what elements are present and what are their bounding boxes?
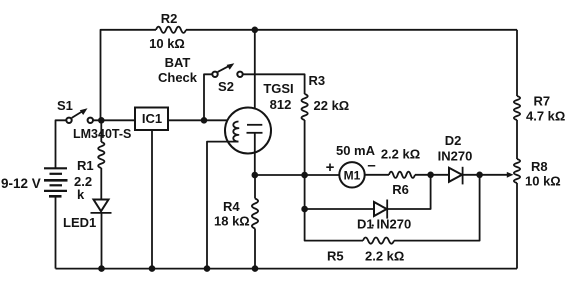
junction dot on top rail at sensor electrode xyxy=(252,27,259,34)
wire R4 top lead xyxy=(254,175,256,199)
svg-text:812: 812 xyxy=(270,97,292,112)
svg-text:9-12 V: 9-12 V xyxy=(1,176,41,191)
svg-text:R2: R2 xyxy=(161,11,178,26)
svg-text:D2: D2 xyxy=(445,133,462,148)
svg-text:IC1: IC1 xyxy=(142,111,162,126)
svg-text:IN270: IN270 xyxy=(438,149,473,164)
svg-text:k: k xyxy=(77,187,85,202)
meter M1 circle xyxy=(339,162,364,187)
svg-text:50 mA: 50 mA xyxy=(336,143,376,158)
diode D2 cathode bar xyxy=(462,167,464,185)
wire meter M1 to R6 xyxy=(365,174,389,176)
svg-text:R3: R3 xyxy=(309,73,326,88)
LED LED1 cathode bar xyxy=(91,212,112,214)
svg-text:22 kΩ: 22 kΩ xyxy=(314,98,350,113)
resistor R5 zigzag xyxy=(363,238,394,244)
wire R5 branch riser xyxy=(305,209,363,241)
wire D1 branch riser from node xyxy=(304,175,306,209)
wire node to D1 anode xyxy=(305,208,374,210)
resistor R6 zigzag xyxy=(389,172,415,178)
diode D1 triangle xyxy=(374,202,387,216)
wire S1 to IC1 input xyxy=(93,119,135,121)
svg-text:R5: R5 xyxy=(327,249,344,264)
svg-text:R6: R6 xyxy=(392,182,409,197)
wire top-left vertical from V+ node down to S1/R1 junction xyxy=(101,30,157,121)
svg-text:M1: M1 xyxy=(344,169,361,183)
junction dot IC1 output / S2 branch xyxy=(201,117,208,124)
switch S1 right contact xyxy=(88,118,93,123)
sensor TGS1 electrode bottom plate xyxy=(247,132,263,134)
diode D2 triangle xyxy=(449,168,462,182)
svg-text:R8: R8 xyxy=(531,159,548,174)
sensor TGS1 electrode top plate xyxy=(247,124,262,126)
wire sensor node to meter branch node xyxy=(255,174,305,176)
resistor R7 zigzag xyxy=(514,96,520,120)
svg-text:IN270: IN270 xyxy=(377,217,412,232)
wire battery negative to ground rail xyxy=(55,196,57,268)
svg-text:S1: S1 xyxy=(57,98,73,113)
junction dot sensor output node xyxy=(252,172,259,179)
svg-text:+: + xyxy=(326,159,335,176)
resistor R3 zigzag xyxy=(302,94,308,120)
wire D1 cathode to R6/D2 node xyxy=(387,175,430,209)
switch S2 arm with arrowhead xyxy=(218,65,231,72)
switch S2 left contact xyxy=(212,72,217,77)
svg-text:LED1: LED1 xyxy=(63,215,96,230)
svg-text:10 kΩ: 10 kΩ xyxy=(149,36,185,51)
LED LED1 triangle xyxy=(94,200,109,212)
svg-text:4.7 kΩ: 4.7 kΩ xyxy=(526,109,565,124)
svg-text:S2: S2 xyxy=(218,79,234,94)
junction dot R4 at ground rail xyxy=(252,265,259,272)
junction dot IC1 ground at rail xyxy=(149,265,156,272)
op IC1 regulator box xyxy=(135,108,168,131)
junction dot wiper node xyxy=(476,172,483,179)
wire LED1 to ground rail xyxy=(101,213,103,269)
wire S2 to R3 top xyxy=(243,74,305,94)
battery B1 9-12V plates xyxy=(44,168,68,196)
svg-text:–: – xyxy=(367,157,375,174)
junction dot D1 branch node xyxy=(301,206,308,213)
diode D1 cathode bar xyxy=(386,200,388,219)
wire R8 wiper arrow xyxy=(480,174,508,176)
resistor R8 zigzag (potentiometer) xyxy=(514,159,520,183)
svg-text:BAT: BAT xyxy=(165,55,191,70)
svg-text:Check: Check xyxy=(158,70,198,85)
wire top rail to R7 xyxy=(516,30,518,96)
wire IC1 ground lead xyxy=(151,130,153,269)
wire R5 to wiper node riser xyxy=(394,175,480,241)
wire R3 bottom lead to sensor output node xyxy=(304,120,306,175)
wire S2 branch riser xyxy=(204,74,212,120)
wire IC1 output to sensor heater xyxy=(168,120,239,121)
ink speck between D1 and IN270 xyxy=(372,224,374,226)
svg-text:TGSI: TGSI xyxy=(263,81,293,96)
svg-text:R7: R7 xyxy=(534,94,551,109)
junction dot LED1 at ground rail xyxy=(98,265,105,272)
svg-text:2.2 kΩ: 2.2 kΩ xyxy=(365,249,404,264)
junction dot S1 output / R1 top xyxy=(98,117,105,124)
resistor R2 zigzag xyxy=(156,27,186,33)
wire heater bottom lead to ground rail xyxy=(207,142,239,269)
svg-text:18 kΩ: 18 kΩ xyxy=(214,214,250,229)
junction dot heater return at rail xyxy=(204,265,211,272)
junction dot meter branch node xyxy=(301,172,308,179)
svg-text:D1: D1 xyxy=(357,217,374,232)
resistor R4 zigzag xyxy=(252,199,258,229)
wire R1 top lead xyxy=(100,120,102,142)
svg-text:10 kΩ: 10 kΩ xyxy=(525,174,561,189)
resistor R1 zigzag xyxy=(98,142,104,168)
wire ground bottom rail xyxy=(56,268,518,270)
svg-text:2.2 kΩ: 2.2 kΩ xyxy=(381,147,420,162)
wire sensor center electrode upper lead xyxy=(254,30,256,125)
wire battery positive to switch S1 xyxy=(56,120,67,168)
wire R7 to R8 xyxy=(516,120,518,159)
wire node to meter M1 xyxy=(305,174,340,176)
svg-text:R4: R4 xyxy=(223,199,240,214)
switch S2 right contact xyxy=(237,72,242,77)
wire sensor output lead down to node xyxy=(254,133,256,175)
wire D2 to wiper node xyxy=(463,174,480,176)
wire R1 to LED1 xyxy=(100,168,102,200)
switch S1 arm with arrowhead xyxy=(72,111,84,118)
switch S1 left contact xyxy=(66,118,71,123)
wire top rail from R2 to top-right corner xyxy=(186,29,517,31)
sensor TGS1 envelope circle xyxy=(225,108,271,154)
wire R8 bottom to ground rail xyxy=(516,183,518,269)
wire R4 bottom lead to ground rail xyxy=(254,229,256,269)
wire R6 to D2 xyxy=(415,174,449,176)
junction dot R6/D1/D2 node xyxy=(427,172,434,179)
svg-text:R1: R1 xyxy=(77,158,94,173)
sensor TGS1 heater coil xyxy=(233,122,238,142)
